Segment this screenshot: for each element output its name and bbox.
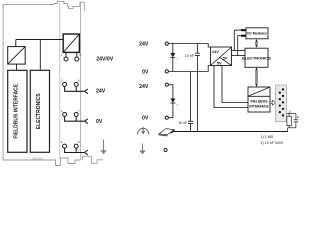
svg-text:24V: 24V	[139, 42, 149, 48]
svg-text:5V: 5V	[217, 61, 222, 66]
svg-text:ELECTRONICS: ELECTRONICS	[242, 55, 271, 60]
svg-text:INTERFACE: INTERFACE	[249, 105, 269, 109]
svg-text:24V/0V: 24V/0V	[96, 57, 114, 63]
svg-text:2: 2	[61, 79, 63, 83]
svg-text:I/O Modules: I/O Modules	[247, 32, 267, 36]
svg-text:2) 10 nF 500V: 2) 10 nF 500V	[261, 141, 284, 145]
svg-text:+: +	[176, 102, 178, 106]
svg-text:5V: 5V	[223, 56, 228, 61]
svg-text:3: 3	[61, 109, 63, 113]
svg-text:FIELDBUS: FIELDBUS	[251, 100, 269, 104]
svg-text:+: +	[176, 57, 178, 61]
svg-text:4: 4	[61, 140, 63, 144]
svg-text:0V: 0V	[142, 115, 149, 121]
svg-text:6: 6	[78, 79, 80, 83]
svg-text:ELECTRONICS: ELECTRONICS	[36, 93, 42, 130]
svg-text:24V: 24V	[212, 49, 219, 54]
svg-text:24V: 24V	[96, 88, 106, 94]
svg-text:10 nF: 10 nF	[185, 54, 195, 58]
svg-text:FIELDBUS INTERFACE: FIELDBUS INTERFACE	[13, 83, 19, 138]
svg-text:750-307: 750-307	[32, 156, 43, 160]
svg-text:0V: 0V	[96, 119, 103, 125]
svg-text:7: 7	[78, 109, 80, 113]
svg-text:1: 1	[61, 53, 63, 57]
svg-text:8: 8	[78, 140, 80, 144]
svg-text:24V: 24V	[139, 84, 149, 90]
svg-text:1) 1 MΩ: 1) 1 MΩ	[261, 135, 274, 139]
svg-text:10 nF: 10 nF	[178, 121, 188, 125]
svg-text:1): 1)	[288, 110, 291, 114]
svg-text:2): 2)	[297, 115, 300, 119]
svg-text:0V: 0V	[142, 69, 149, 75]
